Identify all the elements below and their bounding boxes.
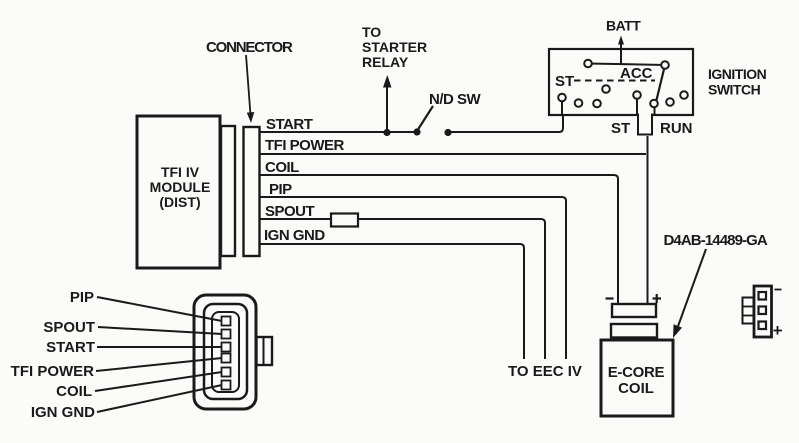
svg-text:N/D SW: N/D SW bbox=[429, 91, 482, 108]
svg-text:RUN: RUN bbox=[660, 120, 693, 137]
svg-text:MODULE: MODULE bbox=[150, 179, 211, 195]
svg-text:RELAY: RELAY bbox=[362, 54, 409, 70]
svg-text:IGN GND: IGN GND bbox=[264, 227, 325, 244]
svg-text:SPOUT: SPOUT bbox=[265, 203, 315, 220]
svg-text:(DIST): (DIST) bbox=[159, 194, 200, 210]
svg-text:TO: TO bbox=[362, 24, 381, 40]
svg-text:TO EEC IV: TO EEC IV bbox=[508, 363, 582, 380]
svg-text:TFI POWER: TFI POWER bbox=[265, 137, 344, 154]
svg-text:COIL: COIL bbox=[265, 159, 299, 176]
svg-text:IGNITION: IGNITION bbox=[708, 66, 767, 82]
svg-text:COIL: COIL bbox=[618, 380, 654, 397]
svg-text:BATT: BATT bbox=[606, 18, 641, 34]
svg-text:TFI POWER: TFI POWER bbox=[11, 363, 94, 380]
svg-text:START: START bbox=[46, 339, 95, 356]
svg-text:ST: ST bbox=[611, 120, 630, 137]
svg-text:ST: ST bbox=[555, 73, 574, 90]
svg-text:STARTER: STARTER bbox=[362, 39, 427, 55]
svg-text:PIP: PIP bbox=[70, 289, 94, 306]
svg-text:TFI IV: TFI IV bbox=[161, 164, 200, 180]
svg-text:SPOUT: SPOUT bbox=[43, 319, 95, 336]
svg-text:PIP: PIP bbox=[269, 181, 292, 198]
svg-text:ACC: ACC bbox=[620, 65, 653, 82]
svg-text:COIL: COIL bbox=[56, 383, 92, 400]
svg-text:D4AB-14489-GA: D4AB-14489-GA bbox=[664, 232, 768, 249]
svg-text:IGN GND: IGN GND bbox=[31, 404, 95, 421]
svg-text:SWITCH: SWITCH bbox=[708, 82, 761, 98]
svg-text:CONNECTOR: CONNECTOR bbox=[206, 39, 293, 56]
svg-text:E-CORE: E-CORE bbox=[608, 364, 665, 381]
svg-text:START: START bbox=[266, 116, 313, 133]
